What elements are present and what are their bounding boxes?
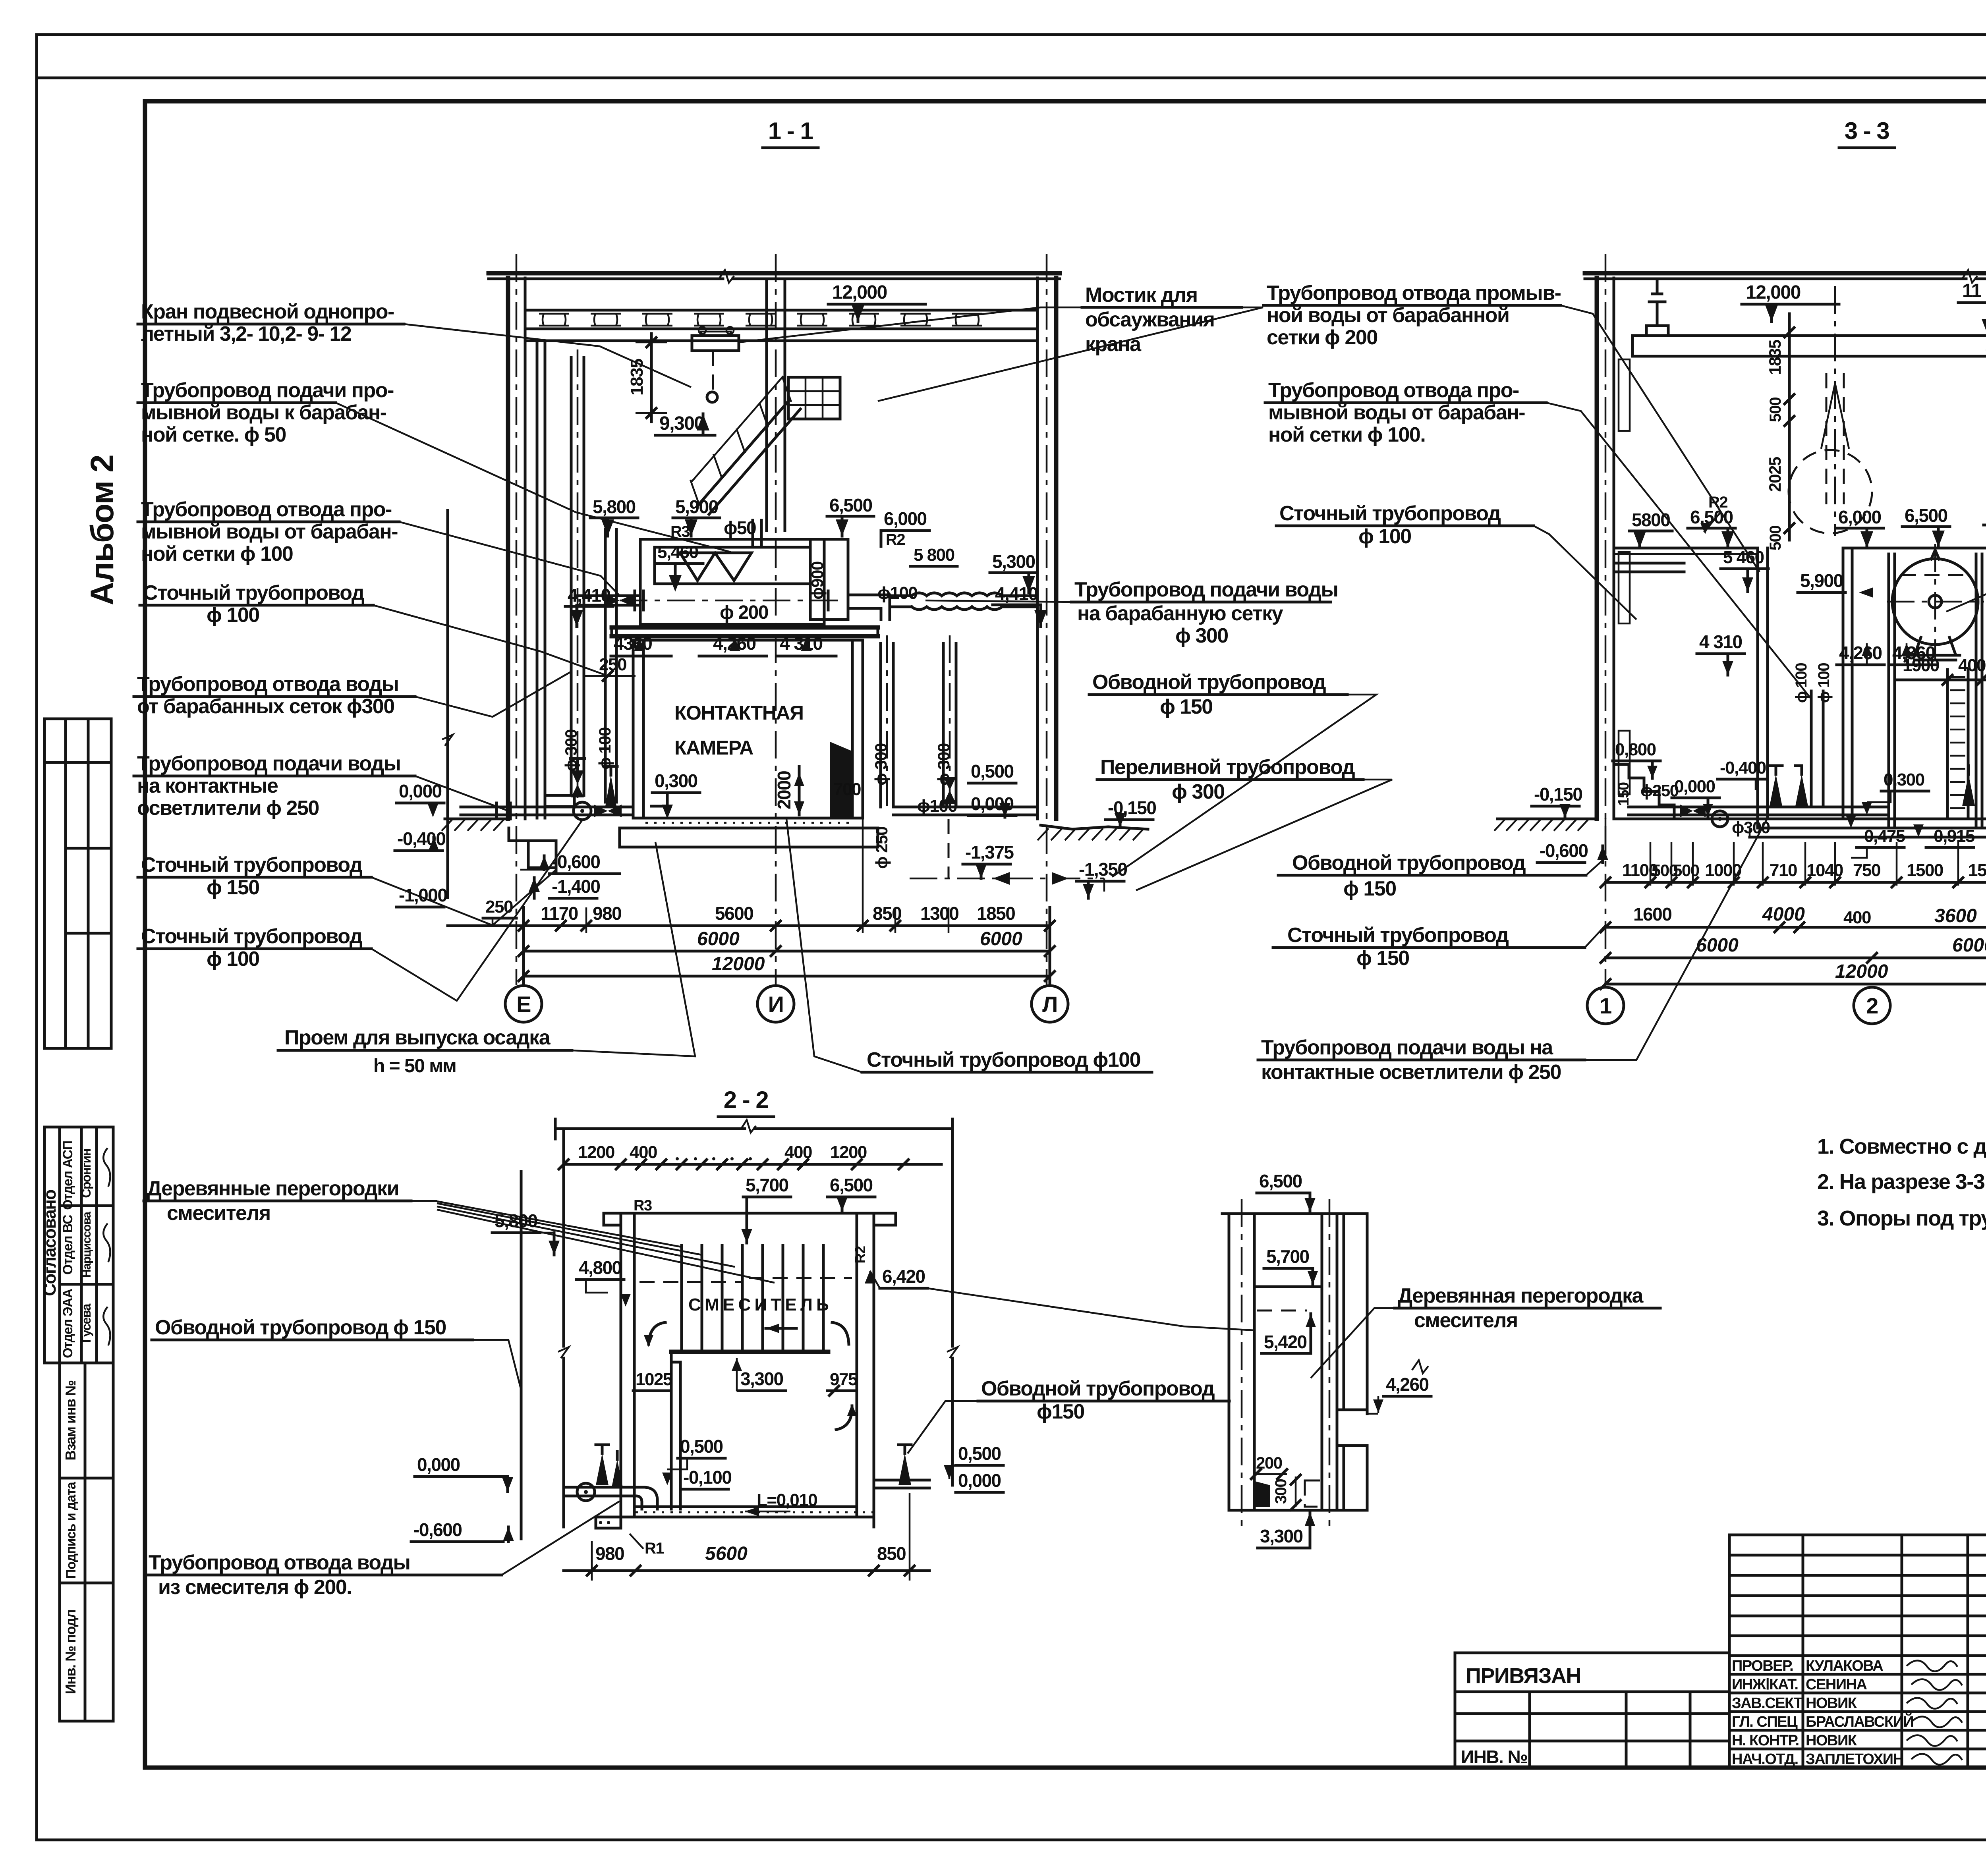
equipment pad — [545, 795, 574, 807]
svg-text:3600: 3600 — [1934, 905, 1977, 926]
svg-text:980: 980 — [595, 1543, 624, 1564]
dimension row 3 3-3 — [1605, 957, 1986, 959]
svg-text:6000: 6000 — [980, 928, 1022, 950]
svg-text:-0,600: -0,600 — [1540, 840, 1588, 861]
vertical pipes right f300 — [879, 643, 882, 807]
ground line right 1-1 — [1041, 825, 1148, 829]
svg-text:L=0,010: L=0,010 — [757, 1490, 817, 1510]
svg-text:3. Опоры под трубопроводы: 3. Опоры под трубопроводы см. Альбом 3. — [1817, 1206, 1986, 1230]
svg-text:5600: 5600 — [715, 903, 753, 924]
svg-text:ϕ 150: ϕ 150 — [207, 876, 259, 899]
svg-text:Отдел АСП: Отдел АСП — [60, 1141, 75, 1210]
svg-text:ЗАПЛЕТОХИН: ЗАПЛЕТОХИН — [1806, 1751, 1903, 1768]
pipe to right wall — [893, 806, 1037, 809]
svg-text:1600: 1600 — [1633, 904, 1671, 924]
svg-text:12,000: 12,000 — [1746, 282, 1801, 303]
drum screen BSM unit — [640, 539, 824, 624]
svg-text:-0,150: -0,150 — [1534, 784, 1582, 805]
svg-text:-0,100: -0,100 — [683, 1467, 731, 1488]
svg-text:0,500: 0,500 — [958, 1443, 1001, 1464]
svg-text:0,500: 0,500 — [680, 1436, 723, 1457]
dimension 1835 crane hook — [650, 334, 653, 422]
svg-text:-1,000: -1,000 — [399, 885, 447, 905]
svg-text:850: 850 — [873, 903, 901, 924]
svg-text:ϕ 100: ϕ 100 — [207, 948, 259, 971]
floor 2-2 — [634, 1505, 857, 1508]
svg-text:5,700: 5,700 — [746, 1175, 788, 1195]
svg-text:6,000: 6,000 — [884, 508, 927, 529]
ground line left 1-1 — [445, 818, 509, 820]
support bar 2-2 — [671, 1350, 828, 1354]
svg-text:ной сетке. ϕ 50: ной сетке. ϕ 50 — [141, 423, 286, 446]
svg-text:Трубопровод отвода воды: Трубопровод отвода воды — [137, 673, 398, 696]
sump under wall — [528, 841, 556, 868]
svg-text:смесителя: смесителя — [167, 1202, 270, 1225]
svg-text:-1,375: -1,375 — [965, 842, 1014, 863]
detail water level — [1257, 1310, 1307, 1312]
extension verticals 3-3 — [1650, 842, 1652, 886]
bottom dims 2-2 — [564, 1569, 929, 1572]
svg-text:Обводной трубопровод: Обводной трубопровод — [981, 1377, 1215, 1400]
tall valve f100 — [605, 775, 616, 806]
dashed drain pipe right — [910, 878, 1104, 880]
svg-text:Л: Л — [1042, 992, 1057, 1017]
svg-text:5,460: 5,460 — [657, 542, 698, 562]
svg-text:ϕ 150: ϕ 150 — [1343, 877, 1396, 900]
riser pipe left 2-2 — [520, 1172, 523, 1539]
svg-text:НОВИК: НОВИК — [1806, 1732, 1857, 1749]
svg-text:Обводной трубопровод ϕ 150: Обводной трубопровод ϕ 150 — [155, 1316, 446, 1339]
svg-text:НАЧ.ОТД.: НАЧ.ОТД. — [1732, 1751, 1798, 1768]
left boundary line 2-2 — [562, 1129, 565, 1346]
svg-text:6,500: 6,500 — [1905, 505, 1947, 526]
drum axis pipe — [620, 600, 840, 602]
svg-text:1850: 1850 — [977, 903, 1015, 924]
crane trolley bracket — [692, 336, 739, 351]
svg-text:Обводной трубопровод: Обводной трубопровод — [1092, 671, 1326, 694]
column E 1-1 — [506, 278, 510, 819]
partition leaders fan 2-2 — [437, 1201, 682, 1247]
svg-text:на контактные: на контактные — [137, 774, 278, 797]
svg-text:5,800: 5,800 — [495, 1210, 537, 1231]
stairs outside 3-3 — [1614, 764, 1629, 778]
stair landing platform — [788, 377, 840, 419]
valve right pipes — [943, 777, 956, 790]
flow arrows 2-2 — [649, 1322, 665, 1344]
crane beam 3-3 — [1632, 336, 1986, 356]
dimension row 3 1-1 — [524, 975, 1050, 978]
svg-text:мывной воды от барабан-: мывной воды от барабан- — [1268, 401, 1525, 424]
left approvals grid table — [44, 719, 111, 1048]
grid bubble 2 — [1854, 987, 1890, 1024]
column L 1-1 — [1036, 278, 1039, 819]
left GOST stamp boxes — [60, 1363, 113, 1721]
svg-text:смесителя: смесителя — [1414, 1309, 1518, 1332]
svg-text:5,420: 5,420 — [1264, 1332, 1307, 1352]
svg-text:И: И — [768, 992, 784, 1017]
svg-text:Сточный трубопровод: Сточный трубопровод — [141, 925, 363, 948]
valve bowtie underfloor — [594, 805, 608, 817]
inner chamber walls 2-2 — [670, 1352, 673, 1509]
svg-text:Нарциссова: Нарциссова — [80, 1212, 93, 1278]
svg-text:4,410: 4,410 — [568, 585, 610, 606]
drum circle 3-3 — [1892, 559, 1978, 645]
dimension row 1 1-1 — [448, 924, 1050, 927]
svg-text:Трубопровод отвода воды: Трубопровод отвода воды — [149, 1551, 410, 1574]
svg-text:R3: R3 — [634, 1197, 652, 1214]
water level dashes 2-2 — [639, 1281, 743, 1283]
dimension row 1 3-3 — [1605, 881, 1986, 884]
top break line 2-2 — [555, 1127, 745, 1130]
svg-text:от барабанных сеток ϕ300: от барабанных сеток ϕ300 — [137, 695, 394, 718]
svg-text:1200: 1200 — [578, 1143, 614, 1162]
svg-text:ной сетки ϕ 100.: ной сетки ϕ 100. — [1268, 423, 1425, 446]
column axis I — [775, 254, 777, 985]
svg-text:ϕ 150: ϕ 150 — [1160, 695, 1213, 718]
detail break mark — [1412, 1360, 1428, 1373]
partition wall 2 — [1842, 548, 1845, 819]
svg-text:-0,475: -0,475 — [1859, 826, 1905, 846]
svg-text:0,500: 0,500 — [971, 761, 1014, 782]
title block privyazan table — [1455, 1653, 1729, 1768]
svg-text:980: 980 — [593, 903, 621, 924]
column axis L — [1046, 254, 1048, 985]
stairs 1-1 — [697, 401, 788, 506]
wooden partitions 2-2 — [680, 1245, 683, 1352]
long leader from 6420 to detail — [927, 1288, 1255, 1330]
svg-text:1835: 1835 — [627, 359, 647, 396]
svg-text:-1,350: -1,350 — [1079, 859, 1127, 880]
wall pipes pair — [536, 341, 539, 818]
column I 1-1 — [765, 279, 768, 531]
svg-text:1300: 1300 — [920, 903, 958, 924]
floor line 3-3 — [1614, 818, 1986, 820]
svg-text:Мостик для: Мостик для — [1085, 284, 1198, 307]
svg-text:5,900: 5,900 — [675, 496, 718, 517]
tall valves 3-3 — [1770, 774, 1782, 806]
left wall 3-3 — [1595, 278, 1599, 819]
dimension row 2 3-3 — [1605, 926, 1986, 929]
roof slab 1-1 — [489, 271, 1060, 276]
svg-text:4,260: 4,260 — [1839, 643, 1882, 663]
svg-text:1500: 1500 — [1968, 861, 1986, 880]
svg-text:ПРИВЯЗАН: ПРИВЯЗАН — [1466, 1664, 1581, 1688]
svg-text:1835: 1835 — [1766, 340, 1784, 375]
top strip line — [37, 77, 1986, 79]
left pipe with valve — [577, 594, 640, 597]
svg-text:ϕ150: ϕ150 — [1037, 1400, 1084, 1423]
svg-text:Согласовано: Согласовано — [40, 1190, 60, 1296]
svg-text:3,300: 3,300 — [1260, 1526, 1303, 1546]
riser pipe f300 — [570, 357, 573, 795]
svg-text:700: 700 — [833, 780, 861, 799]
tank top edges 3-3 — [1614, 547, 1758, 550]
svg-text:Деревянная перегородка: Деревянная перегородка — [1398, 1284, 1644, 1307]
svg-text:6,500: 6,500 — [830, 1175, 873, 1195]
svg-text:4 310: 4 310 — [1699, 631, 1742, 652]
svg-text:0,000: 0,000 — [417, 1454, 460, 1475]
svg-text:летный 3,2- 10,2- 9- 12: летный 3,2- 10,2- 9- 12 — [141, 322, 351, 345]
ground hatch left 3-3 — [1497, 818, 1598, 820]
svg-text:850: 850 — [877, 1543, 906, 1564]
svg-text:ϕ100: ϕ100 — [877, 583, 917, 603]
foundation pad left 2-2 — [596, 1517, 621, 1528]
svg-text:4,800: 4,800 — [579, 1257, 622, 1278]
underfloor pipes left — [461, 806, 633, 809]
axis 1 — [1605, 254, 1607, 985]
tank floors deep 3-3 — [1758, 827, 1986, 830]
ceiling soffit line — [525, 340, 1037, 342]
svg-text:Трубопровод отвода про-: Трубопровод отвода про- — [1268, 379, 1519, 402]
right elbow pipe — [848, 595, 890, 620]
column axis E — [516, 254, 518, 985]
svg-text:400: 400 — [1843, 908, 1871, 927]
svg-text:сетки ϕ 200: сетки ϕ 200 — [1267, 326, 1377, 349]
svg-text:5 800: 5 800 — [914, 545, 954, 565]
svg-text:1900: 1900 — [1903, 656, 1939, 675]
funnel 2 — [715, 553, 752, 581]
svg-text:5600: 5600 — [705, 1543, 748, 1564]
svg-text:1: 1 — [1600, 993, 1611, 1018]
left pipes 2-2 — [564, 1486, 621, 1489]
svg-text:5800: 5800 — [1632, 510, 1670, 530]
roof slab 3-3 — [1585, 271, 1986, 276]
svg-text:ϕ 200: ϕ 200 — [720, 602, 768, 623]
right valve 2-2 — [898, 1453, 911, 1485]
title block signature table — [1729, 1535, 1986, 1768]
svg-text:ГЛ. СПЕЦ: ГЛ. СПЕЦ — [1732, 1714, 1798, 1730]
svg-text:-0,400: -0,400 — [397, 828, 445, 849]
svg-text:ϕ 300: ϕ 300 — [1172, 780, 1225, 803]
svg-text:КОНТАКТНАЯ: КОНТАКТНАЯ — [674, 702, 803, 724]
vertical dim chain 3-3 — [1788, 314, 1791, 540]
dim 2000 vertical — [798, 766, 801, 815]
svg-text:0,000: 0,000 — [958, 1470, 1001, 1491]
svg-text:Инв. № подл: Инв. № подл — [62, 1610, 79, 1694]
underfloor pipes 3-3 — [1629, 806, 1889, 809]
svg-text:ϕ250: ϕ250 — [1640, 781, 1679, 800]
drum stand — [1915, 637, 1956, 655]
svg-text:мывной воды от барабан-: мывной воды от барабан- — [141, 520, 398, 543]
svg-text:ной сетки ϕ 100: ной сетки ϕ 100 — [141, 542, 293, 566]
svg-text:Е: Е — [516, 992, 531, 1017]
svg-text:СЕНИНА: СЕНИНА — [1806, 1676, 1867, 1693]
svg-text:1200: 1200 — [830, 1143, 867, 1162]
svg-text:ϕ900: ϕ900 — [808, 562, 827, 600]
grate partition right of drum — [1946, 670, 1949, 819]
svg-text:ϕ 300: ϕ 300 — [562, 730, 580, 772]
contact chamber walls — [633, 640, 863, 818]
svg-text:R2: R2 — [886, 531, 905, 548]
svg-text:9,300: 9,300 — [659, 413, 704, 434]
partition wall left tank — [1756, 548, 1759, 819]
svg-text:2025: 2025 — [1766, 457, 1784, 492]
svg-text:-0,600: -0,600 — [413, 1519, 462, 1540]
svg-text:6000: 6000 — [697, 928, 740, 950]
svg-text:2. На разрезе 3-3 мостик: 2. На разрезе 3-3 мостик условно не пока… — [1817, 1170, 1986, 1194]
svg-text:КАМЕРА: КАМЕРА — [674, 737, 753, 759]
svg-text:Сточный трубопровод: Сточный трубопровод — [143, 581, 365, 604]
svg-text:2 - 2: 2 - 2 — [724, 1087, 769, 1113]
elbow into tank 2-2 — [621, 1487, 657, 1509]
svg-text:975: 975 — [830, 1370, 858, 1389]
svg-text:3,300: 3,300 — [740, 1368, 783, 1389]
svg-text:Трубопровод подачи воды н: Трубопровод подачи воды на — [1261, 1036, 1553, 1059]
svg-text:710: 710 — [1770, 861, 1797, 880]
svg-text:Отдел ВС: Отдел ВС — [60, 1215, 75, 1275]
svg-text:1. Совместно с данным лис: 1. Совместно с данным листом см. листы Т… — [1817, 1135, 1986, 1158]
svg-text:1 - 1: 1 - 1 — [768, 118, 813, 144]
riser valve — [571, 770, 584, 784]
svg-text:осветлители ϕ 250: осветлители ϕ 250 — [137, 797, 319, 820]
svg-text:Трубопровод подачи про-: Трубопровод подачи про- — [141, 379, 394, 402]
sludge opening dark wedge — [830, 742, 851, 817]
svg-text:12000: 12000 — [1835, 961, 1888, 982]
svg-text:5,300: 5,300 — [992, 551, 1035, 572]
svg-text:6,500: 6,500 — [829, 495, 872, 515]
crane trolley left — [1646, 326, 1668, 336]
svg-text:5,800: 5,800 — [593, 496, 636, 517]
svg-text:3 - 3: 3 - 3 — [1845, 118, 1889, 144]
crane rail beam row — [525, 309, 1037, 312]
svg-text:Трубопровод отвода промыв-: Трубопровод отвода промыв- — [1267, 282, 1561, 305]
svg-text:2000: 2000 — [774, 771, 794, 809]
svg-text:ИНЖⅠКАТ.: ИНЖⅠКАТ. — [1732, 1676, 1798, 1693]
funnel 1 — [680, 553, 715, 581]
grid bubble L — [1032, 986, 1068, 1022]
drum tank walls 3-3 — [1887, 554, 1890, 828]
svg-text:4,260: 4,260 — [1386, 1374, 1429, 1395]
dimension row 4 3-3 — [1605, 983, 1986, 986]
svg-text:1500: 1500 — [1907, 861, 1943, 880]
grid bubble I — [757, 986, 794, 1022]
right boundary line 2-2 — [951, 1129, 954, 1346]
svg-text:6000: 6000 — [1952, 935, 1986, 956]
svg-text:Трубопровод подачи воды: Трубопровод подачи воды — [1074, 578, 1338, 601]
svg-text:0,800: 0,800 — [1615, 740, 1656, 759]
tank 2-2 outer — [620, 1213, 622, 1527]
detail bottom — [1229, 1509, 1367, 1512]
svg-text:Гусева: Гусева — [79, 1304, 93, 1343]
water level dashes drum tank — [1901, 574, 1970, 576]
corrugated pipe — [912, 593, 927, 596]
dim chain top 2-2 — [564, 1163, 941, 1166]
svg-text:6,420: 6,420 — [882, 1266, 925, 1287]
wall caps 2-2 — [604, 1213, 621, 1225]
foundation underfloor 1-1 — [618, 828, 621, 847]
svg-text:6,000: 6,000 — [1838, 507, 1881, 527]
svg-text:Проем для выпуска осадка: Проем для выпуска осадка — [284, 1026, 551, 1049]
svg-text:1170: 1170 — [541, 903, 578, 924]
detail top — [1222, 1212, 1367, 1215]
svg-text:Подпись и дата: Подпись и дата — [64, 1481, 79, 1579]
svg-text:Сточный трубопровод: Сточный трубопровод — [141, 853, 363, 876]
svg-text:Н. КОНТР.: Н. КОНТР. — [1732, 1732, 1799, 1749]
svg-text:0,300: 0,300 — [1884, 770, 1924, 789]
svg-text:Сронгин: Сронгин — [79, 1149, 93, 1198]
svg-text:11 340: 11 340 — [1962, 280, 1986, 301]
svg-text:на барабанную сетку: на барабанную сетку — [1077, 602, 1283, 625]
svg-text:ϕ 100: ϕ 100 — [207, 604, 259, 627]
svg-text:-0,150: -0,150 — [1108, 797, 1156, 818]
svg-text:250: 250 — [485, 897, 513, 917]
svg-text:h = 50 мм: h = 50 мм — [373, 1056, 456, 1077]
detail notch stubs — [1337, 1409, 1367, 1411]
detail dashed box — [1305, 1480, 1322, 1507]
svg-text:1040: 1040 — [1806, 861, 1843, 880]
svg-text:1025: 1025 — [636, 1370, 672, 1389]
right chamber f900 — [810, 539, 848, 620]
svg-text:500: 500 — [1767, 526, 1784, 550]
svg-text:ϕ50: ϕ50 — [724, 517, 756, 538]
svg-text:-1,400: -1,400 — [552, 876, 600, 897]
svg-text:Сточный трубопровод: Сточный трубопровод — [1287, 924, 1509, 947]
svg-text:5 460: 5 460 — [1723, 548, 1764, 567]
svg-text:400: 400 — [630, 1143, 657, 1162]
svg-text:контактные осветлители: контактные осветлители ϕ 250 — [1261, 1061, 1561, 1084]
svg-text:5,700: 5,700 — [1266, 1246, 1309, 1267]
svg-text:6,500: 6,500 — [1259, 1171, 1302, 1191]
svg-text:ϕ 100: ϕ 100 — [595, 728, 614, 770]
svg-text:Сточный трубопровод ϕ100: Сточный трубопровод ϕ100 — [867, 1048, 1140, 1071]
svg-text:5,900: 5,900 — [1800, 570, 1843, 591]
svg-text:400: 400 — [1958, 656, 1986, 675]
left boundary line 1-1 — [446, 510, 449, 828]
svg-text:из смесителя ϕ 200.: из смесителя ϕ 200. — [158, 1576, 352, 1599]
svg-text:Обводной трубопровод: Обводной трубопровод — [1292, 851, 1526, 874]
svg-text:R1: R1 — [645, 1540, 664, 1557]
svg-text:750: 750 — [1853, 861, 1880, 880]
svg-text:ϕ 100: ϕ 100 — [1793, 663, 1810, 703]
svg-text:Взам инв №: Взам инв № — [62, 1380, 79, 1461]
svg-text:ПРОВЕР.: ПРОВЕР. — [1732, 1658, 1793, 1674]
svg-text:Сточный трубопровод: Сточный трубопровод — [1279, 502, 1501, 525]
svg-text:500: 500 — [1673, 861, 1699, 880]
svg-text:ϕ 300: ϕ 300 — [871, 743, 890, 786]
svg-text:ϕ 250: ϕ 250 — [872, 827, 891, 869]
detail dark wedge — [1255, 1481, 1270, 1507]
Soglasovano stamp table — [44, 1127, 113, 1363]
platform slab under drum — [612, 625, 878, 630]
svg-text:400: 400 — [784, 1143, 812, 1162]
svg-text:500: 500 — [1767, 398, 1784, 422]
dimension row 2 1-1 — [524, 950, 1050, 953]
svg-text:ЗАВ.СЕКТ: ЗАВ.СЕКТ — [1732, 1695, 1803, 1712]
svg-text:Отдел ЭАА: Отдел ЭАА — [60, 1289, 75, 1358]
svg-text:ИНВ. №: ИНВ. № — [1461, 1747, 1527, 1767]
svg-text:-0,400: -0,400 — [1720, 758, 1766, 778]
svg-text:ϕ 150: ϕ 150 — [1356, 947, 1409, 970]
svg-text:300: 300 — [1272, 1479, 1290, 1504]
svg-text:12,000: 12,000 — [832, 282, 887, 303]
pump 1-1 — [574, 802, 591, 820]
svg-text:Альбом 2: Альбом 2 — [84, 455, 120, 605]
svg-text:ϕ 100: ϕ 100 — [1358, 525, 1411, 548]
svg-text:Трубопровод отвода про-: Трубопровод отвода про- — [141, 498, 392, 521]
svg-text:2: 2 — [1866, 993, 1878, 1018]
svg-text:мывной воды к барабан-: мывной воды к барабан- — [141, 401, 386, 424]
tall valves 2-2 left — [596, 1453, 609, 1485]
svg-text:150: 150 — [1615, 782, 1632, 806]
svg-text:Деревянные перегородки: Деревянные перегородки — [147, 1177, 399, 1200]
svg-text:0,000: 0,000 — [1674, 777, 1715, 796]
grid bubble 1 — [1587, 987, 1624, 1024]
svg-text:Переливной трубопровод: Переливной трубопровод — [1100, 756, 1355, 779]
svg-text:0,300: 0,300 — [655, 770, 697, 791]
svg-text:4000: 4000 — [1762, 904, 1805, 925]
riser pipe f100 — [604, 529, 607, 802]
wall pilasters left 3-3 — [1619, 359, 1630, 431]
